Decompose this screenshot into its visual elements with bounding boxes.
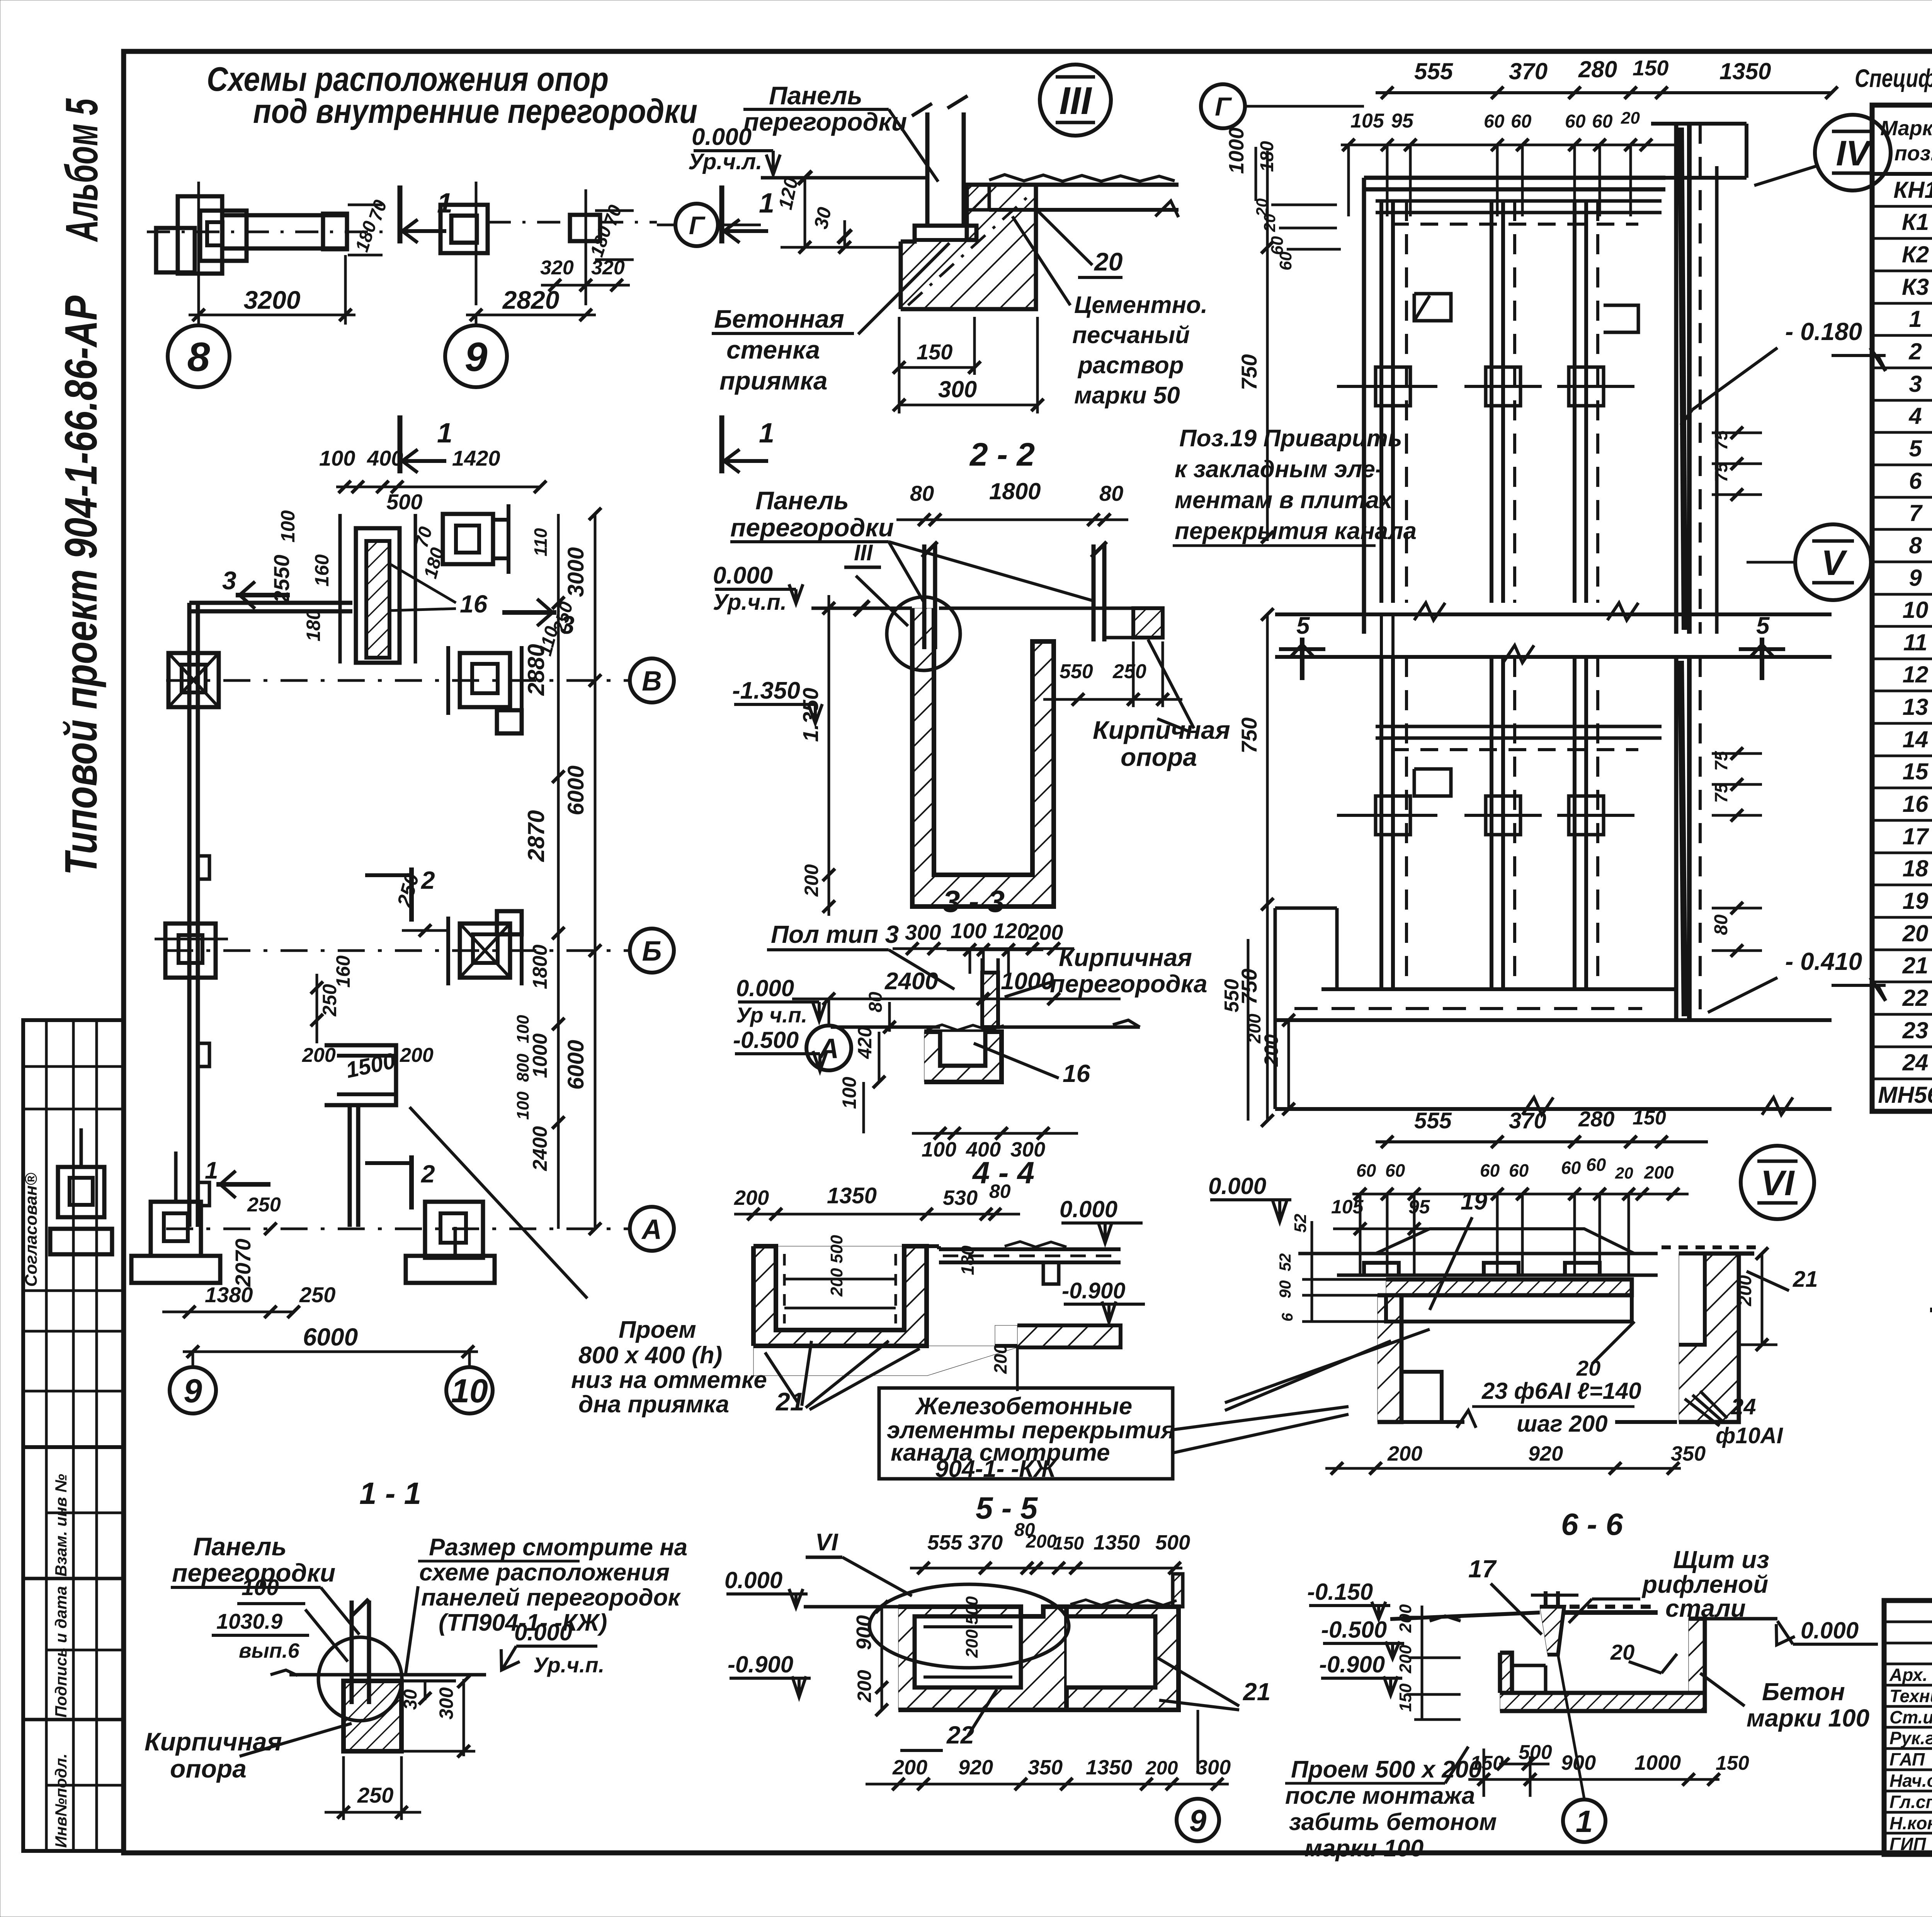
svg-text:200: 200 bbox=[302, 1044, 336, 1067]
middle plan: corner plate detail 2 bbox=[1414, 769, 1451, 796]
section 3-3: floor lines bbox=[831, 1026, 940, 1029]
svg-text:VI: VI bbox=[1761, 1163, 1795, 1203]
svg-text:2: 2 bbox=[1908, 338, 1922, 364]
svg-text:6000: 6000 bbox=[563, 765, 588, 815]
svg-text:опора: опора bbox=[1121, 743, 1197, 771]
svg-text:20: 20 bbox=[1621, 109, 1640, 128]
section VI: left wall of pit bbox=[1378, 1295, 1401, 1422]
svg-text:500: 500 bbox=[1519, 1741, 1552, 1764]
section 4-4: pit inner dashed bbox=[783, 1254, 786, 1323]
svg-text:К3: К3 bbox=[1902, 274, 1929, 300]
svg-text:1000: 1000 bbox=[1225, 128, 1248, 174]
svg-text:Пол тип 3: Пол тип 3 bbox=[771, 920, 899, 948]
spec table outer bbox=[1872, 105, 1932, 1111]
axis circle Б bbox=[630, 929, 674, 973]
svg-text:1: 1 bbox=[759, 418, 774, 449]
svg-text:800 х 400 (h): 800 х 400 (h) bbox=[578, 1342, 722, 1369]
svg-text:420: 420 bbox=[854, 1026, 876, 1059]
svg-text:7: 7 bbox=[1909, 500, 1923, 526]
svg-text:ГАП: ГАП bbox=[1889, 1749, 1925, 1769]
svg-text:150: 150 bbox=[1053, 1533, 1084, 1554]
svg-text:320: 320 bbox=[540, 257, 574, 279]
svg-text:6: 6 bbox=[1909, 468, 1922, 494]
section VI: circle VI bbox=[1741, 1146, 1814, 1219]
section 1-1: dims 30 300 right bbox=[424, 1681, 427, 1700]
svg-text:К2: К2 bbox=[1902, 242, 1929, 267]
svg-text:14: 14 bbox=[1903, 726, 1929, 752]
svg-text:250: 250 bbox=[1112, 660, 1146, 683]
middle plan: section flag 5 left bbox=[1300, 638, 1304, 680]
svg-text:1: 1 bbox=[205, 1157, 218, 1184]
svg-text:105: 105 bbox=[1350, 110, 1384, 132]
middle plan: V zone top dashed band bbox=[1391, 748, 1638, 751]
svg-text:100: 100 bbox=[838, 1077, 860, 1109]
svg-text:Б: Б bbox=[642, 936, 662, 967]
plan: axis А line bbox=[166, 1228, 630, 1230]
section VI: slab below strip bbox=[1386, 1295, 1632, 1322]
svg-text:60: 60 bbox=[1592, 111, 1613, 132]
svg-text:2 - 2: 2 - 2 bbox=[969, 436, 1035, 473]
svg-text:800: 800 bbox=[514, 1053, 532, 1082]
svg-text:Железобетонные: Железобетонные bbox=[915, 1393, 1132, 1420]
svg-text:песчаный: песчаный bbox=[1072, 322, 1190, 349]
svg-text:30: 30 bbox=[810, 205, 835, 231]
svg-text:150: 150 bbox=[1633, 1107, 1666, 1129]
middle plan: wall pair 1 (x~3590) bbox=[1379, 201, 1383, 603]
plan: section flag 2 upper bbox=[409, 867, 414, 922]
middle plan: second dim row 105 95 60 60 60 60 20 bbox=[1341, 144, 1677, 146]
middle plan: heavy wall pair 4 (x~4350) bbox=[1674, 124, 1679, 634]
svg-text:52: 52 bbox=[1276, 1253, 1294, 1271]
svg-text:4: 4 bbox=[1908, 403, 1922, 429]
svg-text:забить бетоном: забить бетоном bbox=[1289, 1809, 1497, 1835]
svg-text:3: 3 bbox=[222, 566, 236, 595]
spec table header row line bbox=[1872, 172, 1932, 176]
plan: column at А left bbox=[151, 1202, 201, 1256]
svg-text:1350: 1350 bbox=[1094, 1531, 1140, 1554]
svg-text:350: 350 bbox=[1671, 1442, 1706, 1465]
middle plan: inner top band bbox=[1376, 199, 1662, 203]
svg-text:В: В bbox=[642, 666, 662, 697]
section 2-2: dim 1.350 200 left bbox=[828, 595, 830, 916]
svg-text:Арх.: Арх. bbox=[1889, 1665, 1928, 1685]
svg-text:марки 50: марки 50 bbox=[1074, 382, 1180, 409]
svg-text:Панель: Панель bbox=[193, 1532, 287, 1561]
section 6-6: sloping top line bbox=[1390, 1613, 1540, 1619]
section VI: bottom dims 200 920 350 bbox=[1325, 1467, 1681, 1470]
svg-text:5: 5 bbox=[1756, 612, 1770, 639]
svg-text:530: 530 bbox=[943, 1186, 978, 1209]
svg-text:19: 19 bbox=[1461, 1188, 1487, 1215]
svg-text:80: 80 bbox=[1711, 914, 1731, 935]
section III: title circle III bbox=[1040, 65, 1111, 136]
svg-text:0.000: 0.000 bbox=[1060, 1196, 1117, 1222]
svg-text:3000: 3000 bbox=[563, 547, 588, 597]
svg-text:А: А bbox=[641, 1214, 662, 1245]
svg-text:90: 90 bbox=[1276, 1280, 1294, 1298]
plan: column at А right bbox=[425, 1202, 483, 1258]
svg-text:20: 20 bbox=[1610, 1640, 1634, 1664]
dimension 2820 bbox=[466, 314, 596, 316]
svg-text:V: V bbox=[1821, 543, 1847, 583]
svg-text:200: 200 bbox=[1735, 1275, 1755, 1306]
section III: panel wall bbox=[925, 112, 930, 226]
svg-text:900: 900 bbox=[852, 1615, 876, 1650]
svg-text:60: 60 bbox=[1511, 111, 1532, 132]
svg-text:100: 100 bbox=[922, 1138, 956, 1161]
svg-text:250: 250 bbox=[357, 1783, 393, 1807]
svg-text:200 500: 200 500 bbox=[963, 1596, 981, 1658]
svg-text:100: 100 bbox=[514, 1015, 532, 1043]
section 2-2: ground line bbox=[811, 607, 912, 610]
leader: Проем 800х400(h) низ на отметке дна приямка bbox=[410, 1107, 587, 1298]
svg-text:III: III bbox=[854, 540, 873, 565]
svg-text:Ст.инж: Ст.инж bbox=[1889, 1707, 1932, 1727]
svg-text:-0.900: -0.900 bbox=[728, 1652, 793, 1677]
svg-text:80: 80 bbox=[866, 992, 886, 1012]
middle plan: section flag 5 right bbox=[1760, 638, 1764, 680]
section VI: right hatched block bbox=[1679, 1254, 1739, 1422]
svg-text:200: 200 bbox=[734, 1186, 769, 1209]
svg-text:под внутренние перегородки: под внутренние перегородки bbox=[253, 92, 697, 130]
section 2-2: left panel above ground bbox=[922, 544, 927, 649]
svg-text:1350: 1350 bbox=[1719, 58, 1771, 84]
section flag 1 upper right bbox=[719, 185, 724, 243]
svg-text:2400: 2400 bbox=[529, 1126, 551, 1171]
svg-text:920: 920 bbox=[1528, 1442, 1563, 1465]
svg-text:приямка: приямка bbox=[719, 366, 828, 395]
section 6-6: riffled steel plate bbox=[1564, 1610, 1658, 1615]
svg-text:75: 75 bbox=[1711, 430, 1731, 450]
section flag 1 upper left bbox=[398, 185, 403, 243]
svg-text:920: 920 bbox=[958, 1756, 993, 1779]
section 3-3: bottom dims 100 400 300 bbox=[912, 1132, 1078, 1135]
section 4-4: right slab strip bbox=[927, 1244, 939, 1248]
svg-text:550: 550 bbox=[1221, 979, 1243, 1012]
spec table row lines col1 bbox=[1872, 205, 1932, 208]
svg-text:Бетонная: Бетонная bbox=[714, 304, 844, 333]
svg-text:250: 250 bbox=[299, 1283, 335, 1307]
svg-text:раствор: раствор bbox=[1077, 352, 1184, 379]
svg-text:0.000: 0.000 bbox=[713, 562, 773, 589]
svg-text:80: 80 bbox=[1099, 481, 1123, 505]
svg-text:2880: 2880 bbox=[523, 644, 549, 696]
svg-text:0.000: 0.000 bbox=[724, 1567, 782, 1593]
section III: ground line left of panel bbox=[761, 176, 927, 180]
svg-text:75: 75 bbox=[1711, 462, 1731, 482]
svg-text:22: 22 bbox=[1902, 985, 1929, 1011]
svg-text:555: 555 bbox=[1414, 58, 1454, 84]
svg-text:200: 200 bbox=[1145, 1757, 1178, 1779]
svg-text:60: 60 bbox=[1561, 1158, 1581, 1178]
svg-text:180: 180 bbox=[303, 609, 324, 641]
svg-text:280: 280 bbox=[1578, 1107, 1614, 1131]
svg-text:904-1- -КЖ: 904-1- -КЖ bbox=[935, 1456, 1057, 1482]
section VI: second dims 60 60 60 60 60 20 200 bbox=[1352, 1193, 1689, 1196]
plan: column at Б left bbox=[165, 924, 216, 978]
svg-text:370: 370 bbox=[1509, 1108, 1546, 1133]
svg-text:опора: опора bbox=[170, 1754, 247, 1783]
svg-text:52: 52 bbox=[1291, 1214, 1310, 1233]
svg-text:к закладным эле-: к закладным эле- bbox=[1175, 456, 1383, 483]
section 3-3: brick partition above bbox=[982, 973, 998, 1027]
section flag 1 lower right bbox=[719, 415, 724, 473]
section 6-6: channel structure hatched bbox=[1500, 1653, 1512, 1693]
svg-text:150: 150 bbox=[1633, 56, 1668, 80]
section 5-5: channel body hatched bbox=[898, 1607, 1066, 1710]
svg-text:100: 100 bbox=[319, 446, 355, 470]
svg-text:Нач.отд: Нач.отд bbox=[1889, 1771, 1932, 1791]
section 1-1: bottom dim 250 bbox=[325, 1811, 421, 1814]
svg-text:20: 20 bbox=[1094, 247, 1123, 276]
svg-text:Щит из: Щит из bbox=[1673, 1546, 1769, 1573]
section 3-3: channel block hatched bbox=[924, 1032, 1002, 1082]
svg-text:Размер смотрите на: Размер смотрите на bbox=[429, 1534, 687, 1561]
svg-text:3: 3 bbox=[1909, 371, 1922, 397]
middle plan: lower-left vertical dims 550 200 bbox=[1287, 1020, 1290, 1109]
svg-text:24: 24 bbox=[1902, 1050, 1929, 1075]
svg-text:150: 150 bbox=[1396, 1683, 1415, 1712]
svg-text:200: 200 bbox=[1027, 920, 1063, 944]
axis circle А bbox=[630, 1207, 674, 1251]
svg-text:перегородки: перегородки bbox=[743, 107, 907, 136]
svg-text:- 0.410: - 0.410 bbox=[1785, 947, 1862, 975]
svg-text:0.000: 0.000 bbox=[692, 124, 752, 150]
svg-text:Бетон: Бетон bbox=[1762, 1678, 1845, 1706]
middle plan: band under bbox=[1275, 655, 1832, 659]
svg-text:200: 200 bbox=[1396, 1604, 1415, 1633]
svg-text:21: 21 bbox=[1793, 1267, 1818, 1292]
svg-text:схеме расположения: схеме расположения bbox=[419, 1559, 670, 1586]
svg-text:250: 250 bbox=[319, 984, 340, 1017]
middle plan: corner plate details bbox=[1414, 294, 1451, 321]
section 4-4: lower ground hatched strip bbox=[1017, 1325, 1121, 1347]
section 5-5: left dims 900 200 bbox=[881, 1607, 883, 1710]
svg-text:ментам в плитах: ментам в плитах bbox=[1175, 487, 1393, 514]
svg-text:поз.: поз. bbox=[1895, 142, 1932, 165]
svg-text:200: 200 bbox=[400, 1044, 434, 1067]
svg-text:1.350: 1.350 bbox=[798, 688, 823, 742]
section 6-6: inner lines bbox=[1512, 1664, 1546, 1667]
section VI: top chord line bbox=[1298, 1252, 1658, 1255]
svg-text:Типовой проект 904-1-66.86: Типовой проект 904-1-66.86-АР bbox=[56, 296, 107, 875]
svg-text:дна приямка: дна приямка bbox=[578, 1391, 729, 1418]
svg-text:200: 200 bbox=[892, 1756, 927, 1779]
middle plan: axis circle Г bbox=[1201, 84, 1245, 128]
section III: foundation hatched block L-shape bbox=[901, 185, 1036, 309]
section 5-5: right solid part bbox=[1066, 1607, 1179, 1710]
svg-text:1800: 1800 bbox=[529, 944, 551, 989]
section 6-6: hatched panel wedge bbox=[1540, 1607, 1564, 1655]
svg-text:перегородка: перегородка bbox=[1050, 970, 1207, 998]
svg-text:100: 100 bbox=[514, 1091, 532, 1120]
svg-text:К1: К1 bbox=[1902, 209, 1929, 235]
svg-text:17: 17 bbox=[1903, 823, 1929, 849]
svg-text:555: 555 bbox=[1414, 1108, 1452, 1133]
svg-text:-0.500: -0.500 bbox=[733, 1027, 799, 1053]
svg-text:-0.900: -0.900 bbox=[1319, 1652, 1385, 1677]
svg-text:200: 200 bbox=[1026, 1531, 1057, 1552]
middle plan: wall pair 2 (x~3890) bbox=[1490, 201, 1493, 603]
svg-text:100: 100 bbox=[277, 510, 299, 543]
svg-text:Кирпичная: Кирпичная bbox=[145, 1727, 282, 1756]
svg-text:30: 30 bbox=[400, 1689, 421, 1710]
svg-text:Ур ч.п.: Ур ч.п. bbox=[736, 1003, 807, 1027]
plan: bottom dim 1380 250 bbox=[162, 1311, 294, 1313]
svg-text:2870: 2870 bbox=[523, 810, 549, 862]
svg-text:марки 100: марки 100 bbox=[1304, 1835, 1423, 1862]
section 2-2: detail circle on left wall bbox=[887, 597, 960, 670]
support 8: centrelines bbox=[197, 182, 200, 305]
section 1-1: detail circle bbox=[318, 1637, 402, 1721]
svg-text:21: 21 bbox=[1902, 953, 1929, 978]
section 5-5: bottom dims 200 920 350 1350 200 300 bbox=[866, 1783, 1229, 1786]
plan: far left column at frame bbox=[58, 1167, 104, 1217]
middle plan: mid horizontal break line (perekrytie) bbox=[1275, 612, 1832, 616]
section 4-4: boxed note Железобетонные элементы перекрытия канала смотрите 904-1- -КЖ bbox=[879, 1388, 1173, 1479]
svg-text:Г: Г bbox=[689, 211, 706, 240]
section 6-6: ladder dims left 200 200 150 bbox=[1421, 1606, 1423, 1720]
svg-text:200: 200 bbox=[854, 1670, 875, 1703]
svg-text:75: 75 bbox=[1711, 750, 1731, 771]
svg-text:24: 24 bbox=[1731, 1394, 1756, 1419]
svg-text:100: 100 bbox=[951, 919, 986, 943]
svg-text:-1.350: -1.350 bbox=[732, 677, 800, 704]
middle plan: embed plates row 2 bbox=[1376, 796, 1410, 835]
svg-text:0.000: 0.000 bbox=[1801, 1618, 1859, 1643]
svg-text:60: 60 bbox=[1276, 252, 1295, 270]
svg-text:500: 500 bbox=[386, 490, 422, 514]
axis circle В bbox=[630, 658, 674, 703]
svg-text:ф10АI: ф10АI bbox=[1716, 1423, 1784, 1448]
svg-text:5: 5 bbox=[1296, 612, 1310, 639]
plan: column at В right bbox=[460, 653, 510, 707]
svg-text:500: 500 bbox=[1155, 1531, 1190, 1554]
svg-text:300: 300 bbox=[435, 1687, 457, 1720]
svg-text:Техник: Техник bbox=[1889, 1686, 1932, 1706]
svg-text:200: 200 bbox=[801, 864, 822, 897]
svg-text:110: 110 bbox=[531, 528, 551, 556]
svg-text:300: 300 bbox=[938, 376, 977, 402]
middle plan: top dim row 555 370 280 150 1350 bbox=[1376, 91, 1832, 94]
svg-text:КН1: КН1 bbox=[1893, 177, 1932, 203]
section flag 3 left bbox=[236, 593, 290, 597]
section 5-5: axis circle 9 bbox=[1197, 1710, 1199, 1774]
svg-text:5: 5 bbox=[1909, 435, 1922, 461]
svg-text:60: 60 bbox=[1484, 111, 1505, 132]
inner dimension chain: 2880 2870 1800 1000 2400 bbox=[557, 514, 560, 1229]
svg-text:21: 21 bbox=[1243, 1678, 1270, 1706]
svg-text:2: 2 bbox=[421, 866, 435, 894]
svg-text:250: 250 bbox=[247, 1194, 281, 1216]
svg-text:750: 750 bbox=[1237, 354, 1261, 390]
section 2-2: brick support right bbox=[1133, 608, 1163, 638]
svg-text:15: 15 bbox=[1903, 759, 1929, 784]
left margin approval table bbox=[23, 1020, 124, 1447]
svg-text:Рук.гр.: Рук.гр. bbox=[1889, 1728, 1932, 1748]
plan: centreline left column row bbox=[166, 949, 630, 952]
plan: opening 1500 rectangle bbox=[325, 1045, 396, 1105]
svg-text:1800: 1800 bbox=[989, 478, 1041, 504]
plan: section flag 2 lower bbox=[409, 1155, 414, 1209]
middle plan: embed plates row 1 bbox=[1376, 367, 1410, 406]
section 4-4: top dims 200 1350 530 80 bbox=[734, 1213, 1020, 1216]
svg-text:1420: 1420 bbox=[452, 446, 500, 470]
plan: wall below opening bbox=[348, 1105, 352, 1227]
svg-text:160: 160 bbox=[311, 554, 333, 587]
svg-text:23: 23 bbox=[1902, 1017, 1929, 1043]
section III: cement wedge at slab joint bbox=[967, 185, 989, 210]
svg-text:Согласован®: Согласован® bbox=[22, 1173, 41, 1287]
svg-text:Взам. инв №: Взам. инв № bbox=[52, 1474, 70, 1577]
section 4-4: slab with pit bbox=[753, 1246, 1017, 1376]
plan: wall notches bbox=[198, 856, 209, 879]
svg-text:10: 10 bbox=[451, 1373, 488, 1410]
section 6-6: bottom dims 150 500 900 1000 150 bbox=[1468, 1778, 1719, 1781]
svg-text:550: 550 bbox=[1060, 660, 1093, 683]
right dimension chain of plan: 3000 6000 6000 bbox=[594, 514, 597, 1229]
section flag 1 lower left bbox=[398, 415, 403, 473]
svg-text:вып.6: вып.6 bbox=[239, 1639, 300, 1662]
middle plan: top horizontal edge bbox=[1364, 176, 1665, 180]
svg-text:марки 100: марки 100 bbox=[1747, 1704, 1869, 1732]
svg-text:6000: 6000 bbox=[303, 1323, 358, 1351]
svg-text:8: 8 bbox=[187, 334, 210, 380]
svg-text:Инв№подл.: Инв№подл. bbox=[52, 1754, 70, 1848]
svg-text:-0.500: -0.500 bbox=[1321, 1617, 1387, 1643]
svg-text:1350: 1350 bbox=[1086, 1756, 1132, 1779]
svg-text:Панель: Панель bbox=[769, 81, 862, 110]
svg-text:1350: 1350 bbox=[827, 1183, 877, 1208]
title block outer bbox=[1884, 1601, 1932, 1854]
middle plan: left vertical dim 750 chain upper bbox=[1266, 151, 1269, 541]
svg-text:350: 350 bbox=[1028, 1756, 1063, 1779]
svg-text:- 0.180: - 0.180 bbox=[1785, 318, 1862, 345]
svg-text:Кирпичная: Кирпичная bbox=[1059, 944, 1192, 971]
svg-text:80: 80 bbox=[989, 1180, 1011, 1202]
svg-text:16: 16 bbox=[1063, 1060, 1090, 1087]
svg-text:1000: 1000 bbox=[1634, 1751, 1681, 1774]
svg-text:11: 11 bbox=[1903, 629, 1927, 655]
svg-text:Проем: Проем bbox=[619, 1317, 696, 1343]
section 5-5: right edge bar bbox=[1173, 1574, 1183, 1607]
svg-text:20: 20 bbox=[1615, 1164, 1633, 1182]
svg-text:III: III bbox=[1059, 79, 1092, 122]
plan: bottom dim 6000 bbox=[183, 1351, 478, 1353]
svg-text:60: 60 bbox=[1565, 111, 1586, 132]
section 5-5: oval detail loop VI bbox=[869, 1584, 1069, 1668]
axis circle IV bbox=[1815, 115, 1891, 191]
plan: section flag 1 lower-left pair bbox=[216, 1182, 270, 1187]
section VI: small embeds on top bbox=[1364, 1263, 1399, 1275]
section 5-5: top dims 555 370 80 200 150 1350 500 bbox=[910, 1567, 1182, 1570]
svg-text:200: 200 bbox=[1644, 1162, 1674, 1182]
plan: column at В left bbox=[168, 653, 219, 707]
svg-text:60: 60 bbox=[1480, 1160, 1500, 1180]
svg-text:9: 9 bbox=[184, 1373, 202, 1410]
svg-text:низ на отметке: низ на отметке bbox=[571, 1367, 767, 1393]
svg-text:2400: 2400 bbox=[884, 968, 938, 995]
middle plan: bottom left step bbox=[1275, 907, 1337, 910]
left margin bottom stamp bbox=[23, 1447, 124, 1851]
support 8: panel bar plan bbox=[178, 196, 222, 274]
svg-text:0.000: 0.000 bbox=[736, 975, 794, 1001]
section 6-6: axis circle 1 bbox=[1558, 1655, 1584, 1799]
section 1-1: panel column bbox=[350, 1601, 354, 1704]
section flag 3 right bbox=[502, 610, 556, 615]
svg-text:2070: 2070 bbox=[231, 1238, 255, 1287]
svg-text:шаг 200: шаг 200 bbox=[1517, 1411, 1608, 1437]
